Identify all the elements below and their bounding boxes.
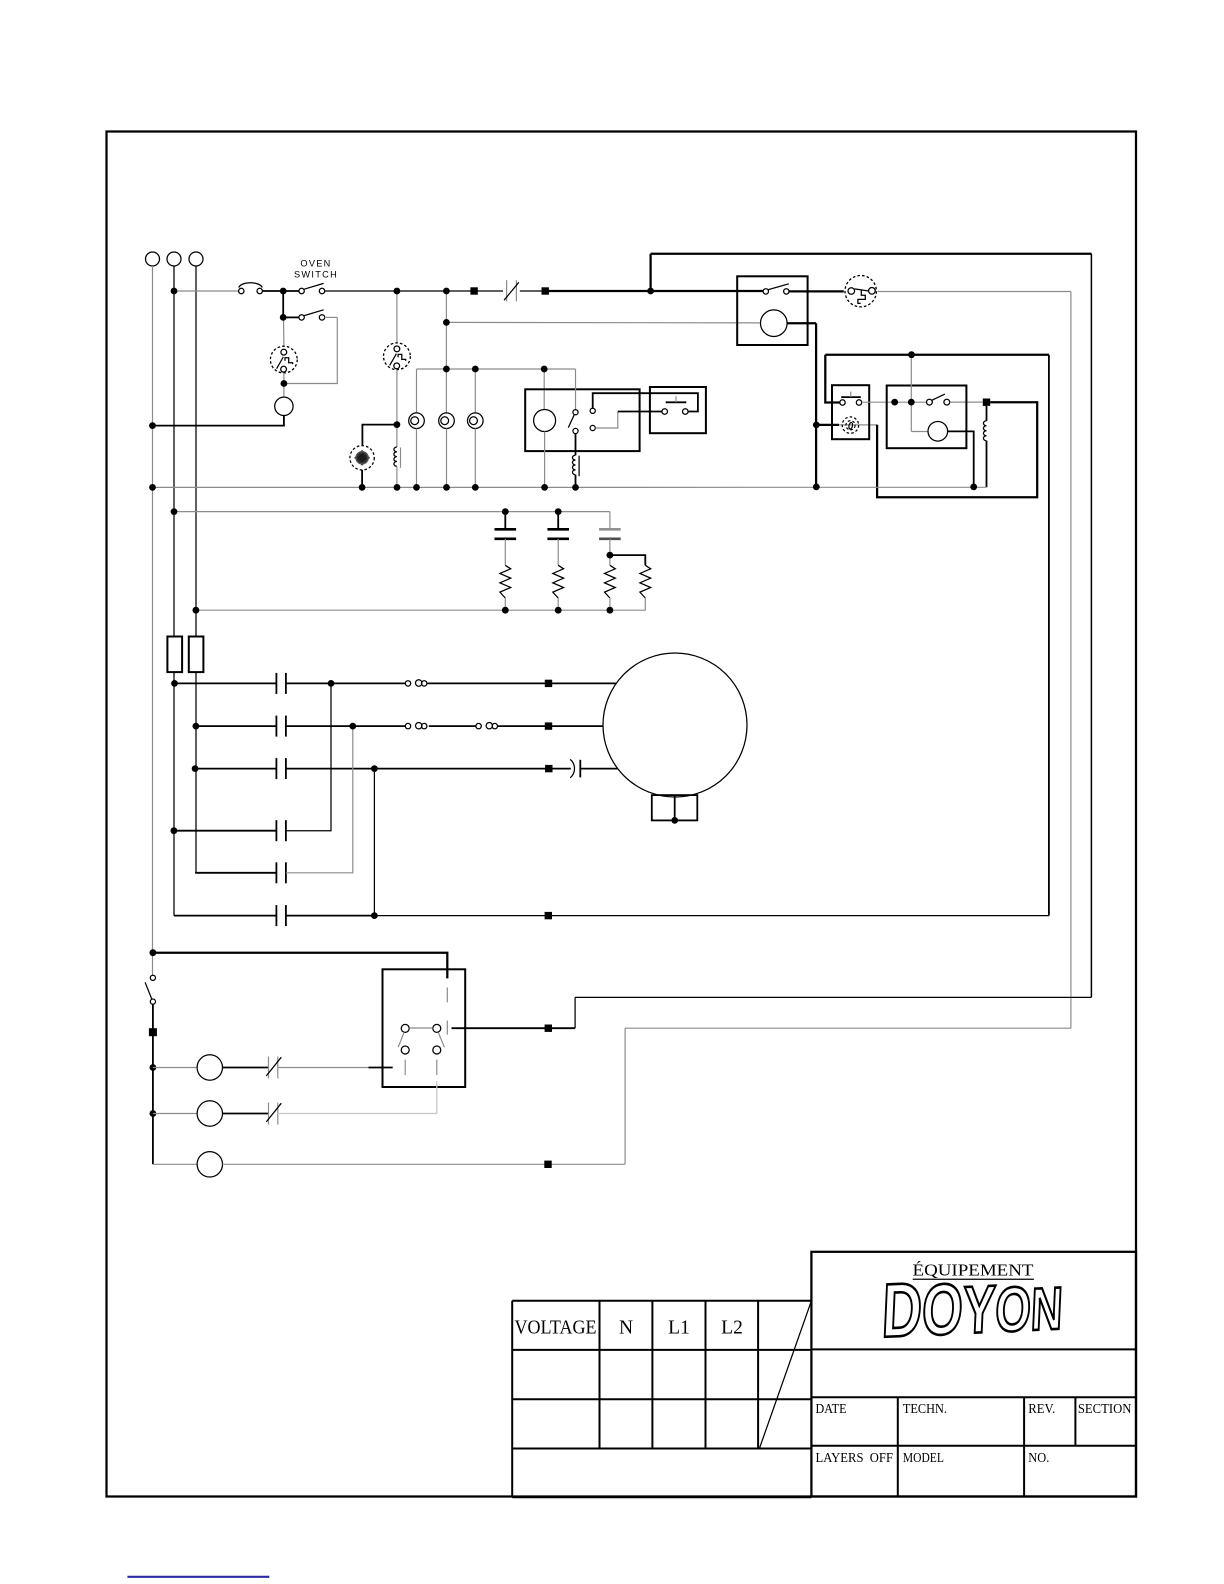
svg-text:L1: L1 (668, 1318, 690, 1339)
svg-text:OVEN: OVEN (300, 258, 331, 268)
svg-text:L2: L2 (721, 1318, 743, 1339)
svg-text:LAYERS OFF: LAYERS OFF (816, 1450, 894, 1465)
svg-text:REV.: REV. (1028, 1401, 1055, 1416)
svg-text:VOLTAGE: VOLTAGE (515, 1318, 597, 1339)
svg-text:SWITCH: SWITCH (294, 270, 338, 280)
svg-text:SECTION: SECTION (1078, 1401, 1132, 1416)
svg-text:MODEL: MODEL (903, 1450, 944, 1465)
svg-text:DATE: DATE (816, 1401, 847, 1416)
svg-text:TECHN.: TECHN. (903, 1401, 947, 1416)
svg-text:NO.: NO. (1028, 1450, 1049, 1465)
svg-text:N: N (619, 1318, 633, 1339)
